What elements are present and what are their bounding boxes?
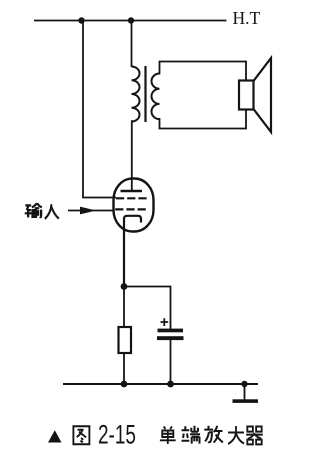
junction dot: transformer primary tap on H.T rail	[128, 17, 134, 23]
caption char: fang (amplify-release)	[204, 426, 223, 443]
wire: H.T rail down to screen grid of tube	[83, 20, 116, 198]
speaker LS1 driver box	[239, 81, 254, 110]
resistor Rk body	[119, 327, 132, 353]
caption char: qi (device)	[246, 427, 263, 445]
wire: ground rail	[63, 383, 258, 385]
earth ground bar	[233, 399, 259, 403]
svg-text:H.T: H.T	[233, 8, 261, 28]
input arrowhead	[80, 207, 96, 215]
tube V1 envelope	[114, 179, 154, 232]
wire: stub to earth symbol	[244, 384, 246, 400]
caption marker triangle	[48, 430, 62, 442]
tube V1 control grid (dashed)	[115, 208, 146, 210]
capacitor Ck bottom plate	[157, 336, 184, 340]
wire: secondary loop bottom run back from speaker	[160, 109, 247, 129]
wire: resistor Rk to ground rail	[123, 353, 125, 384]
wire: H.T rail down to transformer primary	[131, 20, 133, 67]
wire: cathode node across and down to capacitor Ck	[124, 287, 171, 330]
capacitor Ck top plate	[158, 329, 184, 333]
label input (shu)	[25, 203, 42, 217]
transformer T1 core	[144, 66, 146, 122]
junction dot: screen-grid wire tap on H.T rail	[78, 17, 84, 23]
wire: input signal line to control grid	[68, 210, 115, 212]
speaker LS1 horn cone	[254, 58, 272, 132]
caption char: da (big)	[228, 426, 244, 444]
caption char: tu (figure)	[73, 426, 89, 444]
junction dot: earth tap on ground rail	[241, 381, 247, 387]
junction dot: cathode node	[121, 283, 128, 290]
tube V1 anode plate bar	[121, 190, 143, 193]
wire: cathode node down to resistor Rk	[123, 287, 125, 328]
wire: capacitor Ck to ground rail	[170, 340, 172, 384]
junction dot: resistor at ground rail	[121, 381, 128, 388]
wire: H.T supply rail	[34, 20, 227, 22]
transformer T1 secondary winding	[152, 74, 160, 120]
wire: secondary loop top run to speaker	[160, 62, 247, 82]
caption char: dan (single)	[160, 427, 176, 445]
tube V1 cathode with lead	[124, 216, 141, 287]
junction dot: capacitor at ground rail	[167, 381, 174, 388]
transformer T1 primary winding	[132, 67, 140, 122]
wire: plate lead from transformer primary into tube anode	[131, 120, 133, 190]
caption char: duan (end)	[182, 426, 201, 444]
label input (ru)	[45, 204, 59, 219]
capacitor Ck polarity plus sign	[161, 318, 169, 326]
svg-text:2-15: 2-15	[98, 420, 136, 450]
tube V1 screen grid (dashed)	[116, 197, 147, 199]
